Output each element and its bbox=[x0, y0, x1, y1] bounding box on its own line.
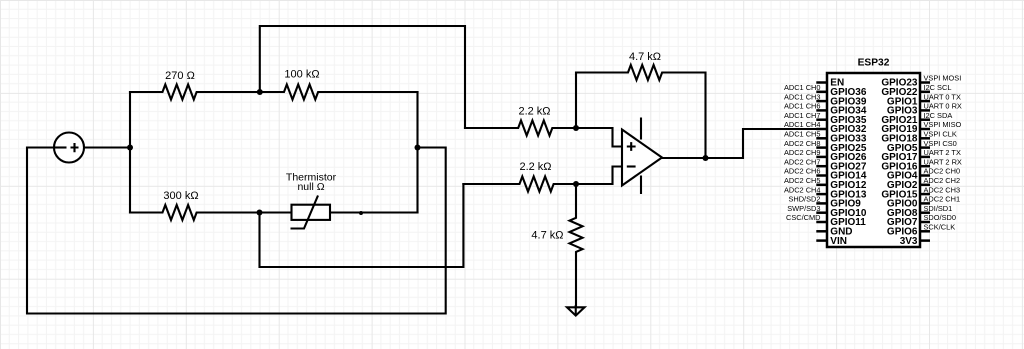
svg-text:I2C SCL: I2C SCL bbox=[924, 83, 952, 92]
pin GPIO0 (right row 14) bbox=[920, 202, 930, 205]
svg-text:ADC2 CH1: ADC2 CH1 bbox=[924, 195, 961, 204]
svg-text:VSPI MISO: VSPI MISO bbox=[924, 120, 962, 129]
node C junction between 300 kohm and thermistor bbox=[257, 210, 263, 216]
pin GPIO18 (right row 7) bbox=[920, 137, 930, 140]
svg-text:3V3: 3V3 bbox=[900, 236, 918, 247]
svg-text:UART 0 TX: UART 0 TX bbox=[924, 92, 961, 101]
resistor R3 300 kohm with wire y=212.5 bbox=[130, 205, 292, 220]
pin GPIO27 (left row 10) bbox=[816, 165, 827, 168]
svg-text:VSPI CLK: VSPI CLK bbox=[924, 130, 957, 139]
svg-text:ADC2 CH4: ADC2 CH4 bbox=[784, 185, 821, 194]
svg-text:ADC1 CH7: ADC1 CH7 bbox=[784, 111, 821, 120]
resistor R7 4.7 kohm feedback with wires bbox=[576, 65, 706, 158]
wire left bridge vertical x=130 bbox=[129, 92, 131, 213]
svg-text:UART 2 RX: UART 2 RX bbox=[924, 157, 962, 166]
pin VIN (left row 18) bbox=[816, 239, 827, 242]
node E junction at op-amp inverting branch bbox=[573, 181, 579, 187]
pin GPIO2 (right row 12) bbox=[920, 184, 930, 187]
pin GPIO25 (left row 8) bbox=[816, 146, 827, 149]
svg-text:ADC1 CH3: ADC1 CH3 bbox=[784, 92, 821, 101]
pin GPIO11 (left row 16) bbox=[816, 221, 827, 224]
pin GPIO36 (left row 2) bbox=[816, 91, 827, 94]
resistor R5 2.2 kohm upper with wire y=128 bbox=[465, 121, 576, 136]
svg-text:ADC2 CH3: ADC2 CH3 bbox=[924, 185, 961, 194]
pin GPIO5 (right row 8) bbox=[920, 146, 930, 149]
pin GPIO21 (right row 5) bbox=[920, 118, 930, 121]
svg-text:CSC/CMD: CSC/CMD bbox=[786, 213, 821, 222]
svg-text:ADC1 CH0: ADC1 CH0 bbox=[784, 83, 821, 92]
pin GPIO14 (left row 11) bbox=[816, 174, 827, 177]
pin GPIO26 (left row 9) bbox=[816, 156, 827, 159]
svg-text:ADC1 CH5: ADC1 CH5 bbox=[784, 130, 821, 139]
node D junction at op-amp non-inverting branch bbox=[573, 125, 579, 131]
svg-text:ADC2 CH8: ADC2 CH8 bbox=[784, 139, 821, 148]
resistor R4 2.2 kohm lower with wire y=184 bbox=[463, 177, 576, 192]
pin GPIO33 (left row 7) bbox=[816, 137, 827, 140]
op-amp U1 bbox=[622, 118, 662, 195]
waypoint dot on thermistor output wire bbox=[359, 211, 363, 215]
svg-text:UART 2 TX: UART 2 TX bbox=[924, 148, 961, 157]
wire top rail from bridge node A up and across to op-amp input branch bbox=[260, 26, 465, 128]
pin GPIO8 (right row 15) bbox=[920, 211, 930, 214]
svg-text:ADC1 CH6: ADC1 CH6 bbox=[784, 102, 821, 111]
microcontroller U2 ESP32 body bbox=[827, 73, 920, 247]
svg-text:UART 0 RX: UART 0 RX bbox=[924, 102, 962, 111]
pin GPIO39 (left row 3) bbox=[816, 100, 827, 103]
wire thermistor right lead to node B vertical bbox=[330, 211, 418, 213]
resistor R6 4.7 kohm vertical to ground bbox=[570, 184, 583, 307]
resistor R2 100 kohm with wire y=92 bbox=[260, 85, 418, 100]
thermistor TH1 bbox=[291, 196, 331, 229]
pin GPIO17 (right row 9) bbox=[920, 156, 930, 159]
svg-text:VSPI MOSI: VSPI MOSI bbox=[924, 74, 962, 83]
wire V1 plus terminal to node at x=130 bbox=[84, 146, 130, 148]
resistor R1 270 ohm with wire y=92 bbox=[130, 85, 260, 100]
svg-text:270 Ω: 270 Ω bbox=[165, 70, 195, 82]
value labels bbox=[163, 51, 661, 241]
svg-text:VIN: VIN bbox=[830, 236, 847, 247]
svg-text:SCK/CLK: SCK/CLK bbox=[924, 223, 956, 232]
svg-text:2.2 kΩ: 2.2 kΩ bbox=[519, 161, 551, 173]
pin GPIO7 (right row 16) bbox=[920, 221, 930, 224]
svg-text:VSPI CS0: VSPI CS0 bbox=[924, 139, 957, 148]
pin GPIO22 (right row 2) bbox=[920, 91, 930, 94]
node V+ junction at source positive terminal bbox=[127, 145, 133, 151]
pin GND (left row 17) bbox=[816, 230, 827, 233]
svg-text:SDI/SD1: SDI/SD1 bbox=[924, 204, 953, 213]
node F junction at op-amp output feedback tap bbox=[703, 155, 709, 161]
svg-text:2.2 kΩ: 2.2 kΩ bbox=[518, 106, 550, 118]
svg-text:null Ω: null Ω bbox=[297, 181, 324, 193]
svg-text:4.7 kΩ: 4.7 kΩ bbox=[629, 51, 661, 63]
pin GPIO32 (left row 6) bbox=[816, 128, 827, 131]
pin GPIO15 (right row 13) bbox=[920, 193, 930, 196]
svg-text:SWP/SD3: SWP/SD3 bbox=[787, 204, 820, 213]
pin 3V3 (right row 18) bbox=[920, 239, 930, 242]
svg-text:ADC2 CH2: ADC2 CH2 bbox=[924, 176, 961, 185]
wire op-amp inverting input jog bbox=[576, 167, 621, 185]
svg-text:SHD/SD2: SHD/SD2 bbox=[788, 195, 820, 204]
svg-text:ADC2 CH6: ADC2 CH6 bbox=[784, 167, 821, 176]
ESP32 U2 bbox=[784, 58, 962, 248]
pin GPIO13 (left row 13) bbox=[816, 193, 827, 196]
pin GPIO4 (right row 11) bbox=[920, 174, 930, 177]
pin GPIO1 (right row 3) bbox=[920, 100, 930, 103]
svg-text:ADC2 CH9: ADC2 CH9 bbox=[784, 148, 821, 157]
pin EN (left row 1) bbox=[816, 81, 827, 84]
wire op-amp non-inverting input jog bbox=[576, 128, 621, 147]
voltage source V1 bbox=[54, 133, 84, 163]
pin GPIO10 (left row 15) bbox=[816, 211, 827, 214]
wire right bridge vertical x=417.5 bbox=[416, 92, 418, 213]
wire bottom bridge output to lower amp branch bbox=[260, 184, 464, 267]
svg-text:I2C SDA: I2C SDA bbox=[924, 111, 953, 120]
pin GPIO6 (right row 17) bbox=[920, 230, 930, 233]
ground bbox=[567, 307, 585, 315]
pin GPIO19 (right row 6) bbox=[920, 128, 930, 131]
svg-text:ADC1 CH4: ADC1 CH4 bbox=[784, 120, 821, 129]
svg-text:100 kΩ: 100 kΩ bbox=[284, 68, 319, 80]
pin GPIO35 (left row 5) bbox=[816, 118, 827, 121]
svg-text:300 kΩ: 300 kΩ bbox=[163, 190, 198, 202]
svg-text:ESP32: ESP32 bbox=[858, 58, 890, 69]
node B junction at bridge right side bbox=[415, 145, 421, 151]
svg-text:SDO/SD0: SDO/SD0 bbox=[924, 213, 956, 222]
svg-text:ADC2 CH7: ADC2 CH7 bbox=[784, 157, 821, 166]
pin GPIO9 (left row 14) bbox=[816, 202, 827, 205]
svg-text:4.7 kΩ: 4.7 kΩ bbox=[531, 229, 563, 241]
svg-text:ADC2 CH5: ADC2 CH5 bbox=[784, 176, 821, 185]
pin GPIO12 (left row 12) bbox=[816, 184, 827, 187]
svg-text:ADC2 CH0: ADC2 CH0 bbox=[924, 167, 961, 176]
pin GPIO23 (right row 1) bbox=[920, 81, 930, 84]
pin GPIO3 (right row 4) bbox=[920, 109, 930, 112]
wire source loop: from V1 minus terminal around bottom to node B bbox=[27, 148, 446, 314]
wire op-amp output to ESP32 pin GPIO32 bbox=[662, 129, 827, 158]
node A junction between 270 ohm and 100 kohm bbox=[257, 89, 263, 95]
pin GPIO34 (left row 4) bbox=[816, 109, 827, 112]
pin GPIO16 (right row 10) bbox=[920, 165, 930, 168]
